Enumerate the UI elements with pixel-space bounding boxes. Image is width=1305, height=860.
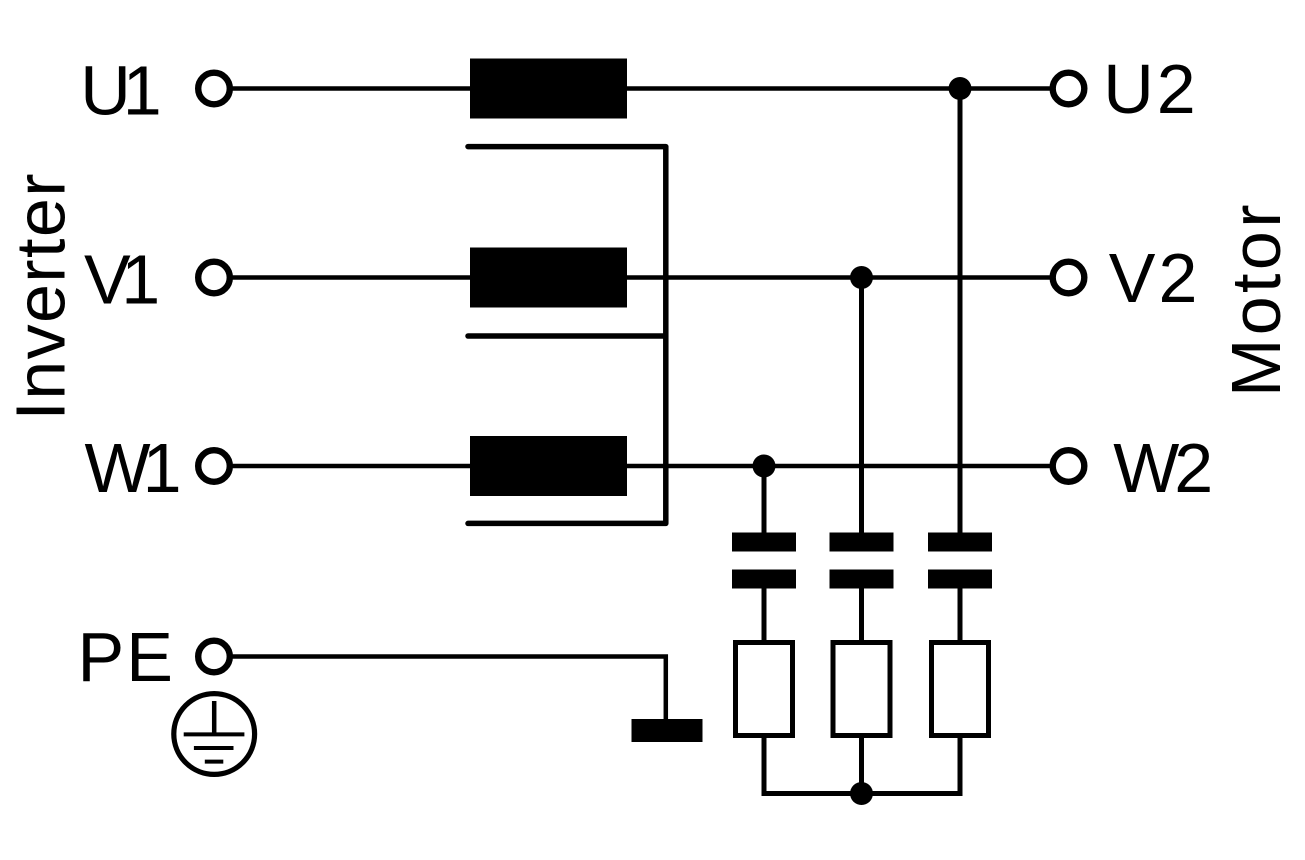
svg-text:PE: PE (78, 618, 175, 696)
wire choke L2 to V2 (627, 275, 1050, 280)
wire V1 to choke L2 (233, 275, 471, 280)
wire V branch to capacitor C2 (859, 278, 864, 533)
svg-text:Inverter: Inverter (2, 172, 80, 421)
node star point (850, 782, 873, 805)
wire W1 to choke L3 (233, 464, 471, 469)
node on V phase (850, 266, 873, 289)
core line L3 (468, 521, 666, 527)
svg-text:U1: U1 (80, 52, 159, 130)
capacitor C1 (732, 533, 796, 589)
wire R2 to star point (859, 738, 864, 794)
terminal V1 (198, 262, 230, 294)
choke L2 (470, 248, 627, 308)
svg-text:Motor: Motor (1217, 201, 1295, 397)
choke L3 (470, 436, 627, 496)
wire U branch to capacitor C3 (958, 89, 963, 533)
svg-text:W2: W2 (1113, 429, 1210, 507)
terminal W1 (198, 450, 230, 482)
terminal V2 (1053, 262, 1085, 294)
wire PE to shield clamp (233, 657, 666, 720)
terminal PE (198, 641, 230, 673)
wire C3 to R3 (958, 589, 963, 641)
terminal U1 (198, 73, 230, 105)
svg-text:W1: W1 (85, 429, 179, 507)
capacitor C3 (928, 533, 992, 589)
wire choke L3 to W2 (627, 464, 1050, 469)
core line L2 (468, 333, 666, 339)
wire C2 to R2 (859, 589, 864, 641)
wire choke L1 to U2 (627, 86, 1050, 91)
resistor R1 (736, 643, 793, 736)
shield clamp (632, 719, 703, 742)
core bus vertical (663, 147, 669, 524)
resistor R3 (932, 643, 989, 736)
terminal W2 (1053, 450, 1085, 482)
wire star-point bus (764, 738, 960, 794)
svg-text:V1: V1 (84, 241, 157, 319)
protective earth symbol (174, 694, 255, 775)
core line L1 (468, 144, 666, 150)
wire U1 to choke L1 (233, 86, 471, 91)
terminal U2 (1053, 73, 1085, 105)
choke L1 (470, 59, 627, 119)
svg-text:U2: U2 (1103, 50, 1198, 128)
node on U phase (949, 77, 972, 100)
resistor R2 (833, 643, 890, 736)
wire W branch to capacitor C1 (762, 466, 767, 533)
svg-text:V2: V2 (1109, 239, 1201, 317)
wire C1 to R1 (762, 589, 767, 641)
capacitor C2 (830, 533, 894, 589)
node on W phase (753, 455, 776, 478)
